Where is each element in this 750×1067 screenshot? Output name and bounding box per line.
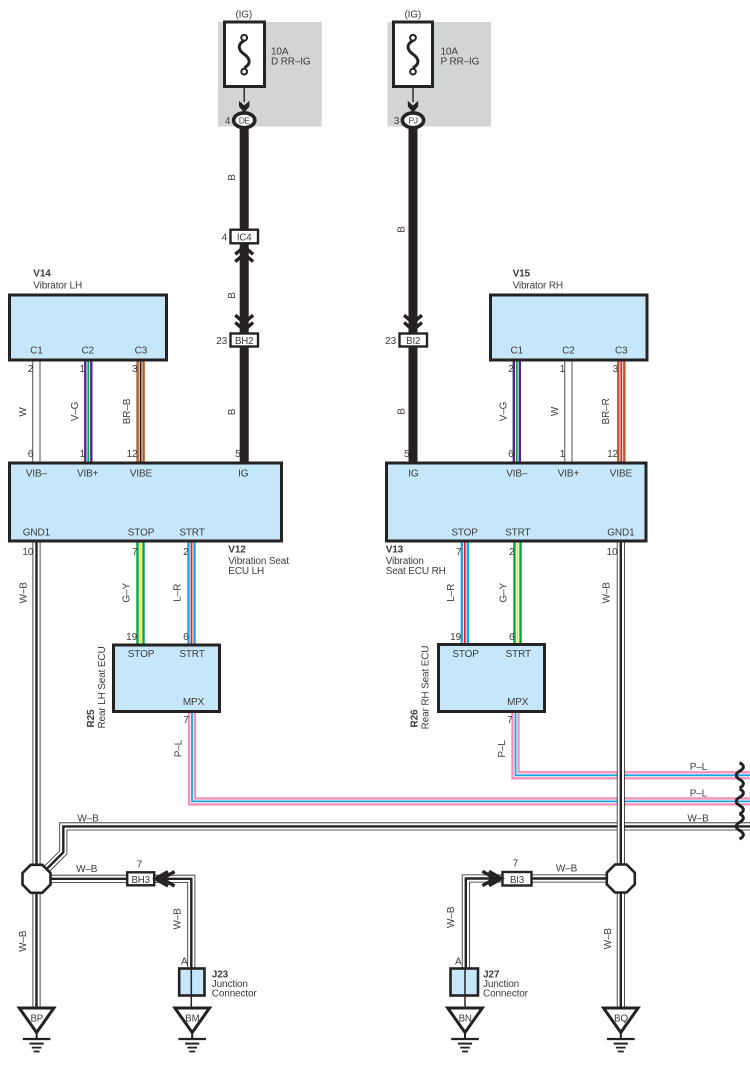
- V14 pin names: [30, 346, 148, 357]
- connector join chevrons right of BH3: [156, 872, 175, 886]
- svg-text:7: 7: [137, 860, 143, 871]
- svg-text:P–L: P–L: [174, 739, 185, 757]
- svg-text:B: B: [227, 408, 238, 415]
- svg-text:W–B: W–B: [77, 814, 99, 825]
- svg-text:7: 7: [456, 547, 462, 558]
- wire L-R: V13 STOP to R26 STOP: [461, 539, 469, 648]
- wire B: BI2 to V13 IG: [409, 344, 418, 466]
- svg-text:V15: V15: [513, 269, 531, 280]
- svg-text:C2: C2: [562, 346, 575, 357]
- svg-text:BI2: BI2: [406, 336, 420, 347]
- svg-text:L–R: L–R: [173, 584, 184, 602]
- label BM: [185, 1013, 199, 1024]
- svg-text:7: 7: [183, 715, 189, 726]
- svg-text:L–R: L–R: [446, 584, 457, 602]
- continuation squiggle P-L upper: [736, 763, 743, 788]
- fuse element LH: [239, 35, 249, 75]
- connector join chevrons below IC4: [235, 247, 253, 262]
- svg-text:W–B: W–B: [603, 928, 614, 950]
- svg-text:C3: C3: [135, 346, 148, 357]
- wire W: V15 C2 to V13 VIB+: [564, 357, 572, 466]
- pin numbers above R25: [126, 632, 189, 643]
- svg-text:Connector: Connector: [212, 989, 258, 1000]
- wire W: V14 C1 to V12 VIB-: [32, 357, 40, 466]
- junction connector J23 box: [179, 969, 204, 1010]
- svg-text:BH3: BH3: [131, 875, 149, 886]
- label BI2: [406, 336, 420, 347]
- wire W-B bus: splice octagon LH to right edge: [47, 826, 750, 868]
- fuse element RH: [408, 35, 418, 75]
- R26 pin names: [452, 649, 531, 708]
- wire label L-R LH: [173, 584, 184, 602]
- svg-text:3: 3: [132, 364, 138, 375]
- svg-text:Vibrator RH: Vibrator RH: [513, 280, 563, 291]
- vibrator V14 box: [10, 295, 167, 360]
- svg-text:IC4: IC4: [237, 232, 252, 243]
- ground BP: [19, 1008, 54, 1052]
- wire W-B: octagon LH to BH3: [37, 875, 131, 883]
- svg-text:6: 6: [28, 449, 34, 460]
- V12 bottom pin names: [23, 527, 205, 538]
- label V12 Vibration Seat ECU LH: [228, 545, 289, 577]
- pin numbers below V13: [456, 547, 618, 558]
- svg-text:BI3: BI3: [510, 875, 524, 886]
- svg-text:STOP: STOP: [128, 527, 155, 538]
- wire W-B: octagon LH to ground BP: [33, 890, 41, 1009]
- label 10A P RR-IG: [441, 47, 480, 68]
- svg-text:6: 6: [508, 449, 514, 460]
- svg-text:P–L: P–L: [690, 762, 708, 773]
- wire label L-R RH: [446, 584, 457, 602]
- svg-text:Connector: Connector: [483, 989, 529, 1000]
- svg-text:2: 2: [508, 364, 514, 375]
- svg-text:10: 10: [607, 547, 618, 558]
- label V13 Vibration Seat ECU RH: [386, 545, 446, 577]
- svg-text:1: 1: [560, 364, 566, 375]
- wire B fuse to PJ RH: [412, 75, 414, 103]
- label W-B bus left: [77, 814, 99, 825]
- svg-text:Vibrator LH: Vibrator LH: [33, 280, 82, 291]
- connector BH2 box: [231, 334, 259, 347]
- svg-text:G–Y: G–Y: [498, 583, 509, 603]
- svg-text:BR–R: BR–R: [601, 398, 612, 424]
- wire G-Y: V13 STRT to R26 STRT: [513, 539, 521, 648]
- svg-text:STOP: STOP: [128, 649, 155, 660]
- label W-B bus right: [687, 814, 709, 825]
- wire W-B: V13 GND1 to splice octagon RH: [617, 539, 625, 867]
- ECU V13 box: [387, 463, 647, 541]
- svg-text:V–G: V–G: [498, 401, 509, 421]
- svg-text:3: 3: [394, 116, 400, 127]
- svg-text:1: 1: [560, 449, 566, 460]
- svg-text:2: 2: [183, 547, 189, 558]
- wire W-B: octagon RH to BI3: [530, 875, 621, 883]
- pin numbers above V13: [404, 449, 619, 460]
- wire label P-L left: [174, 739, 185, 757]
- wire label V-G LH: [70, 401, 81, 421]
- wire label V-G RH: [498, 401, 509, 421]
- label P-L lower bus: [690, 788, 708, 799]
- vibrator V15 box: [491, 295, 648, 360]
- svg-text:D RR–IG: D RR–IG: [271, 57, 311, 68]
- svg-text:5: 5: [404, 449, 410, 460]
- label W-B octagon-BH3: [76, 864, 98, 875]
- V15 pin names: [511, 346, 629, 357]
- ground BM: [175, 1008, 210, 1052]
- label J27 Junction Connector: [483, 970, 529, 1000]
- connector IC4 box: [231, 230, 259, 244]
- svg-text:B: B: [227, 292, 238, 299]
- fuse block background RH: [388, 22, 492, 127]
- connector BI2 box: [400, 334, 428, 347]
- label BQ: [614, 1013, 628, 1024]
- arrow into DE: [239, 101, 249, 113]
- svg-text:C1: C1: [511, 346, 524, 357]
- svg-text:V12: V12: [228, 545, 246, 556]
- svg-text:VIB+: VIB+: [77, 469, 99, 480]
- label BH3: [131, 875, 149, 886]
- svg-text:GND1: GND1: [607, 527, 635, 538]
- svg-text:BR–B: BR–B: [122, 398, 133, 424]
- pin numbers below V15: [508, 364, 619, 375]
- wire label W-B J27 branch: [446, 906, 457, 928]
- pin 23 at BI2: [385, 336, 396, 347]
- pin numbers above V12: [28, 449, 241, 460]
- svg-text:2: 2: [509, 547, 515, 558]
- wire label W-B BP branch: [18, 930, 29, 952]
- R25 pin names: [128, 649, 205, 708]
- svg-text:Rear LH Seat ECU: Rear LH Seat ECU: [97, 646, 108, 728]
- pin 7 above BH3: [137, 860, 143, 871]
- pin 7 above BI3: [513, 859, 519, 870]
- wire B fuse to DE LH: [243, 75, 245, 103]
- svg-text:C2: C2: [81, 346, 94, 357]
- arrow into PJ: [408, 101, 418, 113]
- connector join chevrons left of BI3: [482, 871, 501, 885]
- svg-text:IG: IG: [408, 469, 419, 480]
- label V14 Vibrator LH: [33, 269, 82, 292]
- label J23 Junction Connector: [212, 970, 258, 1000]
- wire P-L: R26 MPX to right edge: [516, 709, 750, 775]
- svg-text:MPX: MPX: [507, 697, 529, 708]
- ground BN: [448, 1008, 483, 1052]
- svg-text:MPX: MPX: [183, 697, 205, 708]
- fuse 10A P RR-IG box: [394, 22, 433, 87]
- label R26 Rear RH Seat ECU: [410, 646, 432, 730]
- svg-text:Rear RH Seat ECU: Rear RH Seat ECU: [421, 646, 432, 730]
- svg-text:VIB–: VIB–: [506, 469, 528, 480]
- svg-text:5: 5: [235, 449, 241, 460]
- wire V-G: V15 C1 to V13 VIB-: [513, 357, 521, 466]
- svg-text:4: 4: [222, 232, 228, 243]
- svg-text:1: 1: [80, 449, 86, 460]
- label DE: [239, 116, 251, 126]
- wire label BR-B LH: [122, 398, 133, 424]
- label W-B BI3-octagon: [556, 863, 578, 874]
- wire label P-L right: [497, 740, 508, 758]
- wire label B (BI2-V13): [396, 408, 407, 415]
- wire label B (PJ-BI2): [396, 226, 407, 233]
- wire label W RH: [550, 406, 561, 416]
- V13 top pin names: [408, 469, 632, 480]
- svg-text:A: A: [181, 956, 188, 967]
- svg-text:R26: R26: [410, 709, 421, 727]
- wire label B (IC4-BH2): [227, 292, 238, 299]
- svg-text:VIBE: VIBE: [130, 469, 153, 480]
- svg-text:B: B: [396, 226, 407, 233]
- label P-L upper bus: [690, 762, 708, 773]
- svg-text:P RR–IG: P RR–IG: [441, 57, 480, 68]
- svg-text:VIBE: VIBE: [610, 469, 633, 480]
- label BP: [30, 1013, 43, 1024]
- wire W-B: octagon RH to ground BQ: [617, 890, 625, 1009]
- svg-text:3: 3: [613, 364, 619, 375]
- label (IG) LH: [235, 10, 252, 21]
- pin A at J27: [455, 956, 462, 967]
- wire W-B: V12 GND1 to splice octagon LH: [33, 539, 41, 867]
- svg-text:W: W: [550, 406, 561, 416]
- label PJ: [409, 116, 418, 126]
- svg-text:STRT: STRT: [179, 649, 204, 660]
- svg-text:STOP: STOP: [451, 527, 478, 538]
- wire label W-B J23 branch: [173, 908, 184, 930]
- svg-text:BM: BM: [185, 1013, 199, 1024]
- wire BR-B: V14 C3 to V12 VIBE: [136, 357, 144, 466]
- splice octagon RH: [607, 865, 635, 893]
- svg-text:23: 23: [385, 336, 396, 347]
- svg-text:P–L: P–L: [497, 740, 508, 758]
- svg-text:(IG): (IG): [404, 10, 421, 21]
- wire label W-B right main: [602, 582, 613, 604]
- fuse block background LH: [218, 22, 322, 127]
- connector oval DE: [234, 113, 255, 128]
- svg-text:VIB+: VIB+: [558, 469, 580, 480]
- wire label W-B BQ branch: [603, 928, 614, 950]
- svg-text:W–B: W–B: [687, 814, 709, 825]
- wire label G-Y LH: [121, 583, 132, 603]
- ground BQ: [604, 1008, 639, 1052]
- connector join chevrons above BH2: [235, 315, 253, 330]
- svg-text:R25: R25: [86, 709, 97, 727]
- continuation squiggle P-L lower: [736, 789, 743, 814]
- pin 7 below R25: [183, 715, 189, 726]
- connector BI3 box: [503, 872, 532, 886]
- connector oval PJ: [402, 113, 423, 128]
- svg-text:STRT: STRT: [506, 649, 531, 660]
- svg-text:B: B: [227, 174, 238, 181]
- svg-text:19: 19: [450, 632, 461, 643]
- pin A at J23: [181, 956, 188, 967]
- svg-text:7: 7: [513, 859, 519, 870]
- wire label B (DE-IC4): [227, 174, 238, 181]
- wire W-B: BH3 to J23: [152, 879, 191, 970]
- pin numbers below V14: [28, 364, 138, 375]
- svg-text:B: B: [396, 408, 407, 415]
- svg-text:23: 23: [216, 336, 227, 347]
- svg-text:A: A: [455, 956, 462, 967]
- svg-text:G–Y: G–Y: [121, 583, 132, 603]
- continuation squiggle W-B: [736, 814, 743, 839]
- label BN: [459, 1013, 472, 1024]
- ECU V12 box: [10, 463, 282, 541]
- svg-text:PJ: PJ: [409, 116, 418, 126]
- svg-text:STRT: STRT: [505, 527, 530, 538]
- svg-text:BH2: BH2: [235, 336, 253, 347]
- svg-text:P–L: P–L: [690, 788, 708, 799]
- svg-text:2: 2: [28, 364, 34, 375]
- svg-text:4: 4: [225, 116, 231, 127]
- pin numbers below V12: [22, 547, 189, 558]
- wire B: DE to IC4: [240, 126, 249, 232]
- seat ECU R26 box: [439, 645, 545, 712]
- svg-text:Seat ECU RH: Seat ECU RH: [386, 566, 446, 577]
- pin 7 below R26: [507, 715, 513, 726]
- wire BR-R: V15 C3 to V13 VIBE: [617, 357, 625, 466]
- wire B: BH2 to V12 IG: [240, 344, 249, 466]
- pin 4 at DE: [225, 116, 231, 127]
- svg-text:V–G: V–G: [70, 401, 81, 421]
- svg-text:6: 6: [509, 632, 515, 643]
- connector join chevrons above BI2: [404, 315, 422, 330]
- pin 23 at BH2: [216, 336, 227, 347]
- svg-text:6: 6: [183, 632, 189, 643]
- wire label G-Y RH: [498, 583, 509, 603]
- svg-text:W–B: W–B: [446, 906, 457, 928]
- svg-text:W–B: W–B: [76, 864, 98, 875]
- connector BH3 box: [127, 872, 154, 885]
- svg-text:DE: DE: [239, 116, 251, 126]
- svg-text:V14: V14: [33, 269, 51, 280]
- fuse 10A D RR-IG box: [225, 22, 265, 87]
- svg-text:VIB–: VIB–: [26, 469, 48, 480]
- wire B: IC4 to BH2: [240, 241, 249, 336]
- pin 4 at IC4: [222, 232, 228, 243]
- svg-text:C1: C1: [30, 346, 43, 357]
- pin numbers above R26: [450, 632, 515, 643]
- svg-text:GND1: GND1: [23, 527, 51, 538]
- wire label W LH: [18, 407, 29, 417]
- svg-text:STOP: STOP: [452, 649, 479, 660]
- seat ECU R25 box: [114, 645, 220, 712]
- svg-text:1: 1: [80, 364, 86, 375]
- svg-text:(IG): (IG): [235, 10, 252, 21]
- svg-text:BN: BN: [459, 1013, 472, 1024]
- label IC4: [237, 232, 252, 243]
- wire G-Y: V12 STOP to R25 STOP: [136, 539, 144, 648]
- svg-text:W–B: W–B: [18, 930, 29, 952]
- svg-text:BP: BP: [30, 1013, 43, 1024]
- wire label BR-R RH: [601, 398, 612, 424]
- svg-text:ECU LH: ECU LH: [228, 566, 264, 577]
- junction connector J27 box: [451, 969, 479, 1010]
- label V15 Vibrator RH: [513, 269, 563, 292]
- svg-text:W–B: W–B: [173, 908, 184, 930]
- wire label B (BH2-V12): [227, 408, 238, 415]
- svg-text:12: 12: [127, 449, 138, 460]
- svg-text:C3: C3: [615, 346, 628, 357]
- wire B: PJ to BI2: [409, 126, 418, 336]
- svg-text:V13: V13: [386, 545, 404, 556]
- wire W-B: BI3 to J27: [466, 879, 505, 971]
- svg-text:W: W: [18, 407, 29, 417]
- pin 3 at PJ: [394, 116, 400, 127]
- svg-text:W–B: W–B: [556, 863, 578, 874]
- svg-text:STRT: STRT: [179, 527, 204, 538]
- wire P-L: R25 MPX to right edge: [192, 709, 750, 801]
- svg-text:W–B: W–B: [602, 582, 613, 604]
- svg-text:19: 19: [126, 632, 137, 643]
- label 10A D RR-IG: [271, 47, 311, 68]
- svg-text:BQ: BQ: [614, 1013, 628, 1024]
- wire L-R: V12 STRT to R25 STRT: [187, 539, 195, 648]
- wire label W-B left main: [18, 582, 29, 604]
- V12 top pin names: [26, 469, 249, 480]
- label BI3: [510, 875, 524, 886]
- svg-text:W–B: W–B: [18, 582, 29, 604]
- V13 bottom pin names: [451, 527, 635, 538]
- label BH2: [235, 336, 253, 347]
- wire V-G: V14 C2 to V12 VIB+: [84, 357, 92, 466]
- splice octagon LH: [23, 865, 51, 893]
- svg-text:10: 10: [22, 547, 33, 558]
- label R25 Rear LH Seat ECU: [86, 646, 108, 728]
- svg-text:7: 7: [507, 715, 513, 726]
- svg-text:7: 7: [132, 547, 138, 558]
- label (IG) RH: [404, 10, 421, 21]
- svg-text:12: 12: [607, 449, 618, 460]
- svg-text:IG: IG: [238, 469, 249, 480]
